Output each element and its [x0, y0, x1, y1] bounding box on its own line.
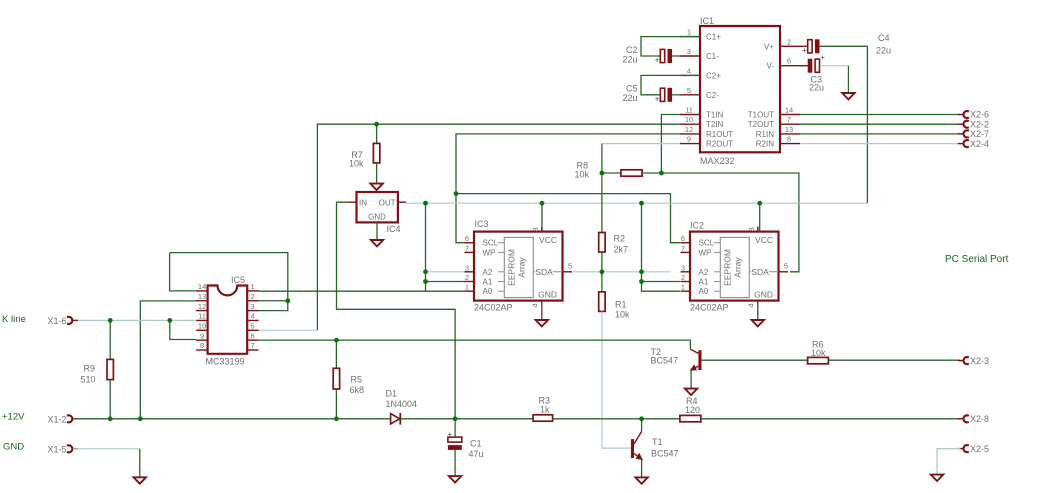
wire R5 top lead	[335, 340, 337, 368]
wire C2+ to C5	[641, 75, 700, 94]
IC2 pin 6 stub	[681, 242, 691, 244]
junction R5 top	[334, 338, 339, 343]
IC2 inner EEPROM Array box	[720, 237, 749, 297]
wire IC5 pin2	[259, 300, 288, 302]
IC IC2 box 24C02AP	[690, 232, 779, 301]
svg-text:1k: 1k	[540, 405, 550, 415]
wire R8 left lead	[602, 172, 621, 174]
svg-text:5: 5	[568, 262, 572, 271]
wire R8 to IC2 SDA	[661, 173, 799, 272]
IC3 pin 5 stub (SDA)	[563, 271, 573, 273]
svg-text:X1-6: X1-6	[48, 316, 67, 326]
svg-text:2: 2	[681, 273, 685, 282]
wire SCL bus to IC2 SCL	[456, 194, 680, 243]
svg-text:2: 2	[787, 37, 791, 46]
IC3 SDA lead line	[533, 271, 562, 273]
junction VCC at IC3 address riser	[423, 201, 428, 206]
svg-text:+: +	[802, 46, 807, 55]
IC5 pin 7 stub	[247, 349, 259, 351]
svg-text:6k8: 6k8	[350, 385, 365, 395]
svg-text:11: 11	[685, 106, 693, 115]
junction R8 right	[659, 171, 664, 176]
wire T2IN to IC5 pin5 riser	[317, 124, 680, 330]
wire R1 bottom to T1 base	[602, 311, 631, 448]
svg-text:A1: A1	[483, 278, 493, 287]
IC1 pin 6 stub	[780, 65, 800, 67]
svg-text:R1IN: R1IN	[756, 130, 774, 139]
svg-text:BC547: BC547	[651, 449, 679, 459]
wire V+ to C4	[800, 45, 808, 47]
IC4 IN pin stub	[349, 201, 357, 203]
connector X2-6	[958, 114, 963, 116]
ground at C1	[449, 476, 461, 482]
IC2 SDA lead line	[749, 271, 778, 273]
IC3 lead line A0	[498, 290, 504, 292]
svg-text:10k: 10k	[574, 170, 589, 180]
svg-text:T1OUT: T1OUT	[748, 111, 774, 120]
connector X2-3	[958, 360, 963, 362]
capacitor C5	[660, 88, 664, 101]
wire +12V riser at X1	[139, 301, 141, 419]
svg-text:+: +	[448, 430, 453, 439]
svg-text:14: 14	[785, 106, 793, 115]
wire C3 ground riser	[847, 66, 849, 93]
svg-text:8: 8	[531, 227, 540, 231]
junction C1 top	[453, 416, 458, 421]
wire K line to IC5 pin11	[73, 319, 196, 321]
IC2 lead line A0	[714, 290, 720, 292]
svg-text:9: 9	[200, 331, 204, 340]
svg-text:GND: GND	[368, 213, 386, 222]
svg-text:22u: 22u	[876, 46, 891, 56]
svg-text:C5: C5	[626, 84, 638, 94]
svg-text:1: 1	[251, 282, 255, 291]
svg-text:22u: 22u	[809, 83, 824, 93]
svg-text:R2IN: R2IN	[756, 140, 774, 149]
svg-text:V+: V+	[764, 42, 774, 51]
wire IC5 pin6 to T2 collector	[259, 340, 691, 349]
connector X1-5	[73, 448, 78, 450]
IC3 pin 2 stub	[465, 281, 475, 283]
connector X2-5	[958, 448, 963, 450]
IC3 inner EEPROM Array box	[504, 237, 533, 297]
svg-text:R2: R2	[614, 234, 626, 244]
svg-text:R1: R1	[615, 300, 627, 310]
svg-text:3: 3	[687, 47, 691, 56]
IC1 MAX232 box	[700, 26, 780, 152]
transistor T1 BC547	[631, 439, 634, 458]
svg-text:D1: D1	[386, 389, 398, 399]
junction VCC at IC3 VCC	[540, 201, 545, 206]
svg-text:8: 8	[200, 341, 204, 350]
wire C2 to C1- pin	[672, 55, 680, 57]
junction R9 top	[108, 318, 113, 323]
svg-text:4: 4	[531, 303, 540, 307]
svg-text:5: 5	[784, 262, 788, 271]
resistor R5	[333, 368, 339, 389]
svg-text:VCC: VCC	[539, 235, 557, 245]
svg-text:2: 2	[465, 273, 469, 282]
svg-text:5: 5	[687, 86, 691, 95]
wire IC5 pin3 up	[259, 301, 288, 311]
svg-text:T1: T1	[652, 437, 663, 447]
svg-text:X2-2: X2-2	[970, 119, 989, 129]
svg-text:A2: A2	[483, 268, 493, 277]
svg-text:7: 7	[251, 341, 255, 350]
svg-text:A0: A0	[699, 287, 709, 296]
resistor R3	[533, 415, 553, 421]
svg-text:SCL: SCL	[483, 239, 499, 248]
svg-text:9: 9	[687, 135, 691, 144]
IC2 pin 2 stub	[681, 281, 691, 283]
junction IC3 A2	[423, 269, 428, 274]
svg-text:10: 10	[685, 115, 693, 124]
wire VCC net	[406, 202, 868, 204]
svg-text:A1: A1	[699, 278, 709, 287]
junction SCL bus	[454, 191, 459, 196]
IC2 lead line SCL	[714, 242, 720, 244]
wire R2IN to X2-4	[800, 143, 960, 145]
svg-text:5: 5	[251, 322, 255, 331]
svg-text:3: 3	[465, 263, 469, 272]
voltage regulator IC4 box	[357, 192, 398, 222]
svg-text:C1-: C1-	[706, 52, 719, 61]
svg-text:K line: K line	[2, 314, 26, 325]
svg-text:WP: WP	[699, 248, 712, 257]
wire IC3 A1	[426, 281, 465, 283]
wire R9 bottom lead	[109, 380, 111, 419]
wire +12V to D1	[73, 418, 390, 420]
svg-text:3: 3	[251, 302, 255, 311]
junction T1 collector	[639, 416, 644, 421]
IC1 pin 5 stub	[680, 94, 700, 96]
IC1 pin 3 stub	[680, 55, 700, 57]
svg-text:X1-2: X1-2	[48, 415, 67, 425]
resistor R8	[621, 170, 642, 176]
svg-text:1: 1	[687, 28, 691, 37]
IC2 pin 5 stub (SDA)	[779, 271, 789, 273]
svg-text:GND: GND	[538, 290, 557, 300]
junction IC5 pin2 pin3	[285, 298, 290, 303]
IC4 OUT pin stub	[398, 201, 406, 203]
svg-text:1N4004: 1N4004	[386, 399, 418, 409]
ground at IC3	[536, 320, 548, 326]
IC5 MC33199 box	[208, 286, 248, 354]
IC2 pin 4 stub (GND)	[757, 301, 759, 320]
IC5 pin 1 stub	[247, 290, 259, 292]
wire X1-5 to ground	[73, 448, 140, 450]
wire R4 to X2-8	[701, 418, 960, 420]
svg-text:6: 6	[787, 57, 791, 66]
svg-text:10k: 10k	[811, 348, 826, 358]
IC3 pin 3 stub	[465, 271, 475, 273]
svg-text:Array: Array	[733, 257, 743, 278]
svg-text:6: 6	[465, 234, 469, 243]
wire C4 to VCC net riser	[820, 46, 868, 203]
svg-text:PC Serial Port: PC Serial Port	[945, 254, 1009, 265]
ground at X1-5	[134, 477, 146, 483]
svg-text:+: +	[655, 56, 660, 65]
wire R2 top	[601, 173, 603, 233]
wire C1 top lead	[454, 419, 456, 437]
svg-text:X2-6: X2-6	[970, 110, 989, 120]
wire X2-5 to ground	[937, 449, 960, 475]
svg-text:R2OUT: R2OUT	[706, 140, 733, 149]
junction IC2 A1	[639, 279, 644, 284]
svg-text:GND: GND	[3, 442, 24, 453]
svg-text:+12V: +12V	[2, 412, 25, 423]
ground at IC2	[752, 320, 764, 326]
svg-text:X1-5: X1-5	[48, 445, 67, 455]
connector X1-2	[73, 418, 78, 420]
IC2 lead line A1	[714, 281, 720, 283]
capacitor C1 47u	[448, 437, 462, 442]
ground at IC4	[371, 240, 383, 246]
connector X2-7	[958, 133, 963, 135]
IC1 pin 7 stub	[780, 123, 800, 125]
svg-text:MAX232: MAX232	[700, 156, 735, 166]
wire stub join	[257, 290, 260, 292]
svg-text:510: 510	[80, 375, 95, 385]
wire D1 to R3	[399, 418, 533, 420]
IC2 pin 3 stub	[681, 271, 691, 273]
svg-text:10k: 10k	[615, 310, 630, 320]
svg-text:X2-7: X2-7	[970, 129, 989, 139]
svg-text:2k7: 2k7	[614, 245, 629, 255]
svg-text:A0: A0	[483, 287, 493, 296]
wire loop above IC5	[170, 253, 288, 301]
svg-text:6: 6	[681, 234, 685, 243]
wire T1 emitter	[641, 459, 643, 477]
junction VCC at IC2 VCC	[757, 201, 762, 206]
IC1 pin 11 stub	[680, 114, 700, 116]
svg-text:GND: GND	[754, 290, 773, 300]
svg-text:C2+: C2+	[706, 71, 721, 80]
ground at T2	[685, 389, 697, 395]
IC3 pin 1 stub	[465, 290, 475, 292]
svg-text:WP: WP	[483, 248, 496, 257]
wire IC2 A1	[642, 281, 681, 283]
svg-text:12: 12	[685, 125, 693, 134]
svg-text:IC5: IC5	[231, 275, 245, 285]
IC2 lead line WP	[714, 251, 720, 253]
IC3 pin 7 stub	[465, 251, 475, 253]
ground at C3	[842, 93, 854, 99]
ground at R7	[370, 184, 382, 190]
svg-text:10: 10	[198, 322, 206, 331]
wire IC5 pin1 to IC3 A0	[258, 290, 465, 292]
svg-text:4: 4	[687, 66, 691, 75]
wire K line to IC5 pin9	[170, 320, 196, 339]
IC IC3 box 24C02AP	[474, 232, 563, 301]
svg-text:22u: 22u	[622, 55, 637, 65]
connector X2-4	[958, 143, 963, 145]
wire IC3 VCC riser	[541, 203, 543, 231]
svg-text:13: 13	[785, 125, 793, 134]
IC1 pin 10 stub	[680, 123, 700, 125]
junction K line branch	[167, 318, 172, 323]
svg-text:Array: Array	[517, 257, 527, 278]
IC1 pin 9 stub	[680, 143, 700, 145]
svg-text:OUT: OUT	[379, 199, 396, 208]
wire T1 collector	[641, 419, 643, 432]
svg-text:47u: 47u	[469, 449, 484, 459]
junction R5 bottom	[334, 416, 339, 421]
svg-text:10k: 10k	[349, 159, 364, 169]
svg-text:24C02AP: 24C02AP	[690, 303, 729, 313]
IC5 pin 5 stub	[247, 329, 259, 331]
transistor T2 BC547	[698, 350, 701, 370]
IC5 pin 2 stub	[247, 300, 259, 302]
svg-text:X2-5: X2-5	[970, 444, 989, 454]
wire VCC riser to IC3 address pins	[425, 203, 427, 291]
wire T2OUT to X2-2	[800, 123, 960, 125]
svg-text:IC4: IC4	[387, 224, 401, 234]
wire loop to IC5 pin14	[170, 253, 197, 291]
IC2 pin 1 stub	[681, 290, 691, 292]
wire R3 to R4	[553, 418, 680, 420]
svg-text:24C02AP: 24C02AP	[474, 303, 513, 313]
IC5 pin 8 stub	[196, 349, 208, 351]
connector X2-8	[958, 418, 963, 420]
IC1 pin 8 stub	[780, 143, 800, 145]
wire R2OUT riser to R8 left	[601, 144, 603, 173]
IC5 pin 3 stub	[247, 310, 259, 312]
svg-text:EEPROM: EEPROM	[723, 249, 733, 286]
svg-text:C2: C2	[626, 45, 638, 55]
wire T2 base to R6	[702, 359, 808, 361]
wire R2 bottom to R1 top	[601, 252, 603, 292]
svg-text:X2-4: X2-4	[970, 139, 989, 149]
capacitor C2	[660, 49, 664, 62]
wire C5 to C2- pin	[672, 94, 680, 96]
svg-text:EEPROM: EEPROM	[507, 249, 517, 286]
resistor R4	[680, 415, 701, 421]
svg-text:R5: R5	[351, 375, 363, 385]
IC2 pin 7 stub	[681, 251, 691, 253]
IC1 pin 1 stub	[680, 36, 700, 38]
svg-text:+: +	[655, 94, 660, 103]
svg-text:7: 7	[681, 244, 685, 253]
svg-text:IC3: IC3	[475, 219, 489, 229]
IC3 lead line WP	[498, 251, 504, 253]
IC2 lead line A2	[714, 271, 720, 273]
IC5 pin 6 stub	[247, 339, 259, 341]
IC5 pin 14 stub	[196, 290, 208, 292]
svg-text:R9: R9	[83, 364, 95, 374]
junction R7 top	[374, 122, 379, 127]
svg-text:T2OUT: T2OUT	[748, 120, 774, 129]
wire IC2 VCC riser	[759, 203, 761, 232]
wire R5 bottom lead	[335, 389, 337, 419]
svg-text:2: 2	[251, 292, 255, 301]
diode D1 1N4004	[391, 414, 400, 424]
svg-text:X2-8: X2-8	[970, 414, 989, 424]
wire R7 top	[376, 124, 378, 143]
IC5 pin 4 stub	[247, 319, 259, 321]
IC3 pin 6 stub	[465, 242, 475, 244]
IC5 pin 9 stub	[196, 339, 208, 341]
wire ground riser X1-5	[139, 449, 141, 477]
IC3 lead line A1	[498, 281, 504, 283]
svg-text:A2: A2	[699, 268, 709, 277]
IC5 pin 11 stub	[196, 319, 208, 321]
svg-text:MC33199: MC33199	[206, 357, 245, 367]
wire T1IN to R8 right	[661, 115, 680, 174]
junction VCC at IC2 riser	[639, 201, 644, 206]
svg-text:T2IN: T2IN	[706, 120, 724, 129]
svg-text:IC1: IC1	[700, 16, 714, 26]
svg-text:6: 6	[251, 331, 255, 340]
IC1 pin 14 stub	[780, 114, 800, 116]
resistor R9	[107, 359, 113, 379]
junction IC3 A1	[423, 279, 428, 284]
wire IC5 pin5 TX	[259, 329, 318, 331]
svg-text:7: 7	[787, 115, 791, 124]
IC3 pin 4 stub (GND)	[541, 301, 543, 320]
svg-text:7: 7	[465, 244, 469, 253]
IC2 pin 8 stub (VCC)	[757, 227, 759, 232]
svg-text:SCL: SCL	[699, 239, 715, 248]
svg-text:22u: 22u	[622, 93, 637, 103]
junction R9 bottom	[108, 416, 113, 421]
wire R8 right lead	[642, 172, 661, 174]
wire IC2 address riser	[642, 203, 681, 291]
svg-text:X2-3: X2-3	[970, 356, 989, 366]
svg-text:VCC: VCC	[755, 235, 773, 245]
IC1 pin 13 stub	[780, 133, 800, 135]
IC5 pin 10 stub	[196, 329, 208, 331]
svg-text:C4: C4	[878, 33, 890, 43]
wire R2OUT	[602, 143, 680, 145]
IC3 pin 8 stub (VCC)	[541, 227, 543, 232]
IC5 pin 13 stub	[196, 300, 208, 302]
IC1 pin 4 stub	[680, 74, 700, 76]
svg-text:C1: C1	[470, 439, 482, 449]
svg-text:14: 14	[198, 282, 206, 291]
wire V- to C3	[800, 65, 808, 67]
svg-text:C1+: C1+	[706, 33, 721, 42]
svg-text:SDA: SDA	[751, 267, 769, 277]
wire R9 top lead	[109, 320, 111, 359]
wire C1 bottom lead	[454, 450, 456, 476]
ground at X2-5	[931, 475, 943, 481]
svg-text:+: +	[820, 53, 825, 62]
IC4 GND pin	[376, 222, 378, 239]
resistor R2	[599, 233, 605, 253]
svg-text:BC547: BC547	[651, 356, 679, 366]
svg-text:4: 4	[747, 303, 756, 307]
svg-text:R1OUT: R1OUT	[706, 130, 733, 139]
wire C1+ to C2	[641, 37, 700, 56]
junction +12V riser	[138, 416, 143, 421]
wire R7 bottom	[376, 163, 378, 183]
wire T1OUT to X2-6	[800, 114, 960, 116]
IC5 pin 12 stub	[196, 310, 208, 312]
wire C3 to ground	[820, 65, 849, 67]
svg-text:1: 1	[681, 283, 685, 292]
junction IC2 A2	[639, 269, 644, 274]
connector X2-2	[958, 123, 963, 125]
capacitor C4	[808, 40, 812, 53]
wire R6 to X2-3	[828, 359, 960, 361]
wire R1IN to X2-7	[800, 133, 960, 135]
wire IC3 SDA to IC2 A2	[573, 271, 671, 273]
svg-text:1: 1	[465, 283, 469, 292]
resistor R7	[373, 143, 379, 163]
svg-text:8: 8	[747, 227, 756, 231]
svg-text:12: 12	[198, 302, 206, 311]
